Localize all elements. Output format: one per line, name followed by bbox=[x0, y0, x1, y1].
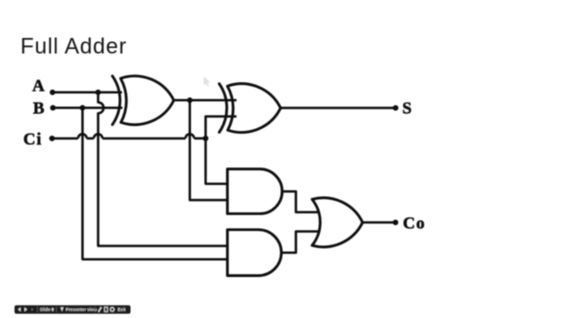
xor gate U2 input arc bbox=[219, 84, 227, 133]
junction on B wire bbox=[80, 105, 86, 111]
toolbar dim icon bbox=[31, 308, 33, 311]
wire Ci horizontal segment 2 bbox=[87, 137, 94, 139]
node B input terminal dot bbox=[50, 105, 56, 111]
junction on A wire bbox=[95, 90, 101, 96]
wire XOR1 output to XOR2 top input bbox=[174, 99, 237, 101]
toolbar prev-slide arrow bbox=[18, 307, 21, 311]
wire AND1 output to OR top input bbox=[282, 191, 318, 212]
svg-text:Full Adder: Full Adder bbox=[20, 34, 127, 59]
wire Ci horizontal segment 4 bbox=[194, 137, 206, 139]
svg-text:Ci: Ci bbox=[23, 130, 42, 149]
toolbar separator 2 bbox=[55, 307, 58, 312]
node Co output terminal dot bbox=[393, 220, 399, 226]
toolbar separator 3 bbox=[94, 307, 97, 312]
wire OR output to Co bbox=[363, 221, 396, 223]
wire Ci horizontal segment 3 bbox=[102, 137, 185, 139]
toolbar dropdown caret bbox=[51, 309, 54, 311]
toolbar separator bbox=[36, 307, 39, 312]
junction on Ci wire bbox=[203, 136, 209, 142]
or gate U5 body (carry out) bbox=[312, 198, 363, 247]
svg-text:Exit: Exit bbox=[118, 307, 127, 312]
wire XOR1-output branch vertical down to AND1 bottom input bbox=[190, 100, 228, 200]
and gate U3 body bbox=[227, 169, 282, 214]
toolbar pointer icon bbox=[60, 307, 63, 311]
wire Ci horizontal segment 1 bbox=[52, 137, 78, 139]
junction on XOR1 output bbox=[187, 97, 193, 103]
toolbar pen icon bbox=[98, 307, 102, 312]
wire Ci branch up to XOR2 bottom input bbox=[206, 116, 237, 138]
wire Ci hop over XOR1-output vertical bbox=[186, 134, 195, 138]
node S output terminal dot bbox=[393, 105, 399, 111]
wire Ci branch down to AND1 top input bbox=[206, 138, 228, 183]
toolbar settings gear bbox=[110, 308, 114, 312]
toolbar fullscreen icon bbox=[105, 307, 108, 311]
mouse cursor bbox=[204, 76, 210, 87]
wire AND2 output to OR bottom input bbox=[281, 231, 318, 252]
and gate U4 body bbox=[227, 230, 281, 276]
wire input B horizontal bbox=[53, 107, 123, 109]
wire XOR2 output to S bbox=[281, 107, 396, 109]
svg-text:S: S bbox=[402, 99, 412, 118]
wire input A horizontal bbox=[53, 91, 123, 93]
node A input terminal dot bbox=[50, 90, 56, 96]
xor gate U2 body (sum S) bbox=[227, 84, 280, 133]
wire Ci hop over A-branch vertical bbox=[94, 134, 103, 138]
toolbar next-slide arrow bbox=[24, 307, 27, 311]
node Ci input terminal dot bbox=[49, 136, 55, 142]
xor gate U1 input arc bbox=[112, 76, 120, 125]
wire B branch vertical down to AND2 bottom input bbox=[83, 108, 228, 259]
xor gate U1 body (A xor B) bbox=[121, 76, 174, 125]
wire Ci hop over B-branch vertical bbox=[78, 134, 87, 138]
svg-text:Co: Co bbox=[403, 214, 426, 233]
svg-text:B: B bbox=[33, 99, 45, 118]
presenter toolbar background bbox=[15, 305, 131, 313]
wire A branch vertical with hop over B, down to AND2 top input bbox=[98, 92, 227, 246]
svg-text:A: A bbox=[32, 76, 45, 95]
svg-text:Presenter view: Presenter view bbox=[66, 307, 98, 312]
